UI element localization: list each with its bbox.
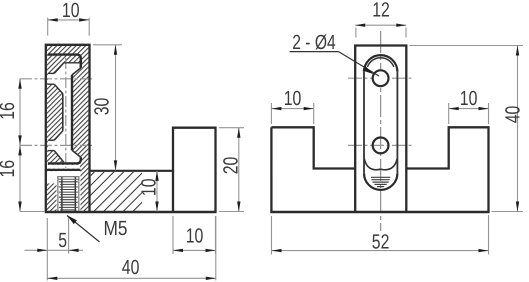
svg-text:40: 40 [502, 106, 525, 124]
white band above thread [47, 171, 80, 176]
slot right wall [396, 72, 398, 173]
recess bottom thick bar [48, 157, 81, 163]
white recess and holes interior [48, 63, 80, 163]
dim 10 prong arrows [173, 249, 183, 252]
dim 30 top extension [93, 44, 122, 46]
slot bottom arc [364, 173, 397, 190]
hole1 bore lines [48, 72, 54, 74]
hole2 bore lines [48, 139, 54, 141]
dim 20 dimension line [238, 128, 240, 212]
dim 40 arrows [47, 277, 57, 280]
svg-text:20: 20 [219, 157, 242, 175]
hole2 countersink diagonals [54, 131, 63, 140]
centerline hole1 horizontal [348, 77, 414, 79]
slot counterbore inner arc [367, 58, 393, 67]
dim 10 base height dimension line [156, 171, 158, 212]
base top edge [90, 170, 174, 172]
dim 52 extensions [271, 216, 273, 255]
svg-text:M5: M5 [104, 217, 128, 240]
hole 2 [373, 138, 389, 154]
centerline M5 axis / extension [68, 172, 70, 216]
hatch base strip coarse [91, 172, 142, 211]
svg-text:10: 10 [138, 179, 161, 197]
dim 40 dimension line [47, 277, 216, 279]
dim 52 dimension line [272, 250, 489, 252]
thread M5 crest lines [59, 182, 78, 210]
dim 30 arrows [114, 45, 117, 55]
dim 12 dimension line [355, 24, 406, 26]
dim 52 arrows [272, 249, 282, 252]
recess right wall [71, 75, 73, 150]
boss outline [355, 46, 406, 213]
dim 16 dimension line [19, 79, 21, 212]
svg-text:40: 40 [122, 256, 140, 279]
dim 10 left-arm extensions [270, 103, 272, 124]
leader M5 [67, 216, 100, 243]
slot top arc [364, 55, 397, 72]
dim 5 dimension line [25, 249, 84, 251]
centerline hole1 axis [20, 78, 95, 80]
leader 2-O4 line [339, 52, 380, 76]
band2 bottom edge [64, 62, 80, 64]
svg-text:12: 12 [372, 0, 390, 21]
svg-text:52: 52 [372, 230, 390, 253]
white band below recess floor [47, 165, 80, 169]
dim 40 extension right [215, 216, 217, 281]
dim 12 arrows [355, 24, 365, 27]
svg-text:5: 5 [58, 229, 67, 252]
dim 10 top: dimension line [48, 19, 89, 21]
dim 10 prong dimension line [173, 249, 216, 251]
countersink wing right [381, 159, 398, 170]
dim 40 right dimension line [517, 46, 519, 212]
dim 10 left-arm arrows [271, 107, 281, 110]
centerline hole2 horizontal [348, 144, 413, 146]
dim 5 extension left [46, 218, 48, 281]
svg-text:10: 10 [62, 0, 80, 22]
dim 20 arrows [237, 128, 240, 138]
svg-text:2 - Ø4: 2 - Ø4 [292, 31, 336, 54]
dim 12 extensions [355, 28, 357, 38]
dim 5 arrows [37, 249, 47, 252]
svg-text:10: 10 [284, 87, 302, 110]
svg-text:10: 10 [460, 87, 478, 110]
white notch left of thread [47, 177, 58, 184]
dim 10 top: extension lines [47, 18, 49, 36]
centerline hole2 axis [20, 144, 95, 146]
dim 10 right-arm extensions [448, 103, 450, 124]
hole1 countersink diagonals [54, 63, 64, 74]
dim 20 extensions [219, 127, 244, 129]
centerline slot mid vertical [65, 58, 67, 168]
dim 16 arrows [18, 79, 21, 89]
centerline boss vertical [380, 31, 382, 231]
dim 30 dimension line [115, 45, 117, 171]
dim 40 right extensions [410, 45, 524, 47]
svg-text:10: 10 [186, 225, 204, 248]
hole 1 [373, 70, 389, 86]
thread M5 outer lines [57, 177, 59, 211]
slot side wall line [62, 94, 64, 131]
column outline [46, 45, 90, 211]
svg-text:16: 16 [0, 102, 19, 120]
dim 16 bottom extension [20, 211, 45, 213]
prong outline [173, 128, 216, 212]
recess lower step diagonal [72, 150, 81, 157]
leader 2-O4 shoulder [290, 51, 339, 53]
dim 10 base arrows [155, 171, 158, 181]
thread M5 backing [57, 171, 81, 211]
dim 10 right-arm dimension line [449, 108, 489, 110]
recess upper step diagonal [72, 68, 81, 75]
dim 10 right-arm arrows [449, 107, 459, 110]
slot left wall [363, 72, 365, 173]
dim 10 left-arm dimension line [271, 108, 313, 110]
countersink wing left [364, 159, 380, 170]
svg-text:16: 16 [0, 160, 19, 178]
base bottom edge [270, 211, 489, 213]
hatch column full fill [47, 46, 89, 211]
thread M5 minor diameter lines [61, 177, 63, 211]
thread M5 chamfer lines [57, 176, 79, 178]
recess top thick bar [48, 55, 81, 68]
dim 40 right arrows [516, 46, 519, 56]
bottom edge [45, 211, 217, 214]
bracket outline [271, 127, 488, 212]
svg-text:30: 30 [91, 98, 114, 116]
dim 10 top arrows [48, 18, 58, 21]
thread seen in slot [371, 177, 390, 186]
counterbore floor bar [45, 169, 80, 171]
dim 10 prong extensions [172, 216, 174, 254]
